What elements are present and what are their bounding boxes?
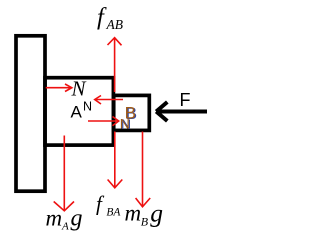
svg-text:B: B: [141, 214, 149, 228]
svg-text:BA: BA: [106, 206, 121, 218]
friction arrow f_AB (red, up from top of block A): [108, 38, 122, 92]
weight arrow m_B g (red, down from block B): [136, 132, 151, 207]
force F arrow (black, pointing left at block B): [156, 102, 207, 121]
wall (tall rectangle at left): [16, 36, 45, 191]
svg-text:B: B: [125, 104, 136, 123]
friction arrow f_BA (red, down from bottom of B through A): [108, 132, 123, 188]
normal force arrow N (red, from wall onto A, pointing right): [46, 84, 72, 92]
svg-text:m: m: [125, 201, 142, 226]
svg-text:g: g: [71, 206, 83, 232]
svg-text:m: m: [46, 206, 63, 231]
svg-text:N: N: [83, 99, 92, 113]
svg-text:F: F: [180, 90, 191, 110]
weight arrow m_A g (red, down from block A): [54, 136, 74, 211]
svg-text:A: A: [71, 103, 83, 122]
arrow N^A (red, pointing left onto A from B): [95, 96, 123, 105]
svg-text:N: N: [71, 77, 87, 101]
svg-text:A: A: [61, 221, 69, 233]
svg-text:AB: AB: [106, 17, 124, 32]
arrow N_B (red, pointing right onto B from A): [88, 117, 119, 126]
block B: [114, 95, 150, 130]
svg-text:g: g: [150, 199, 163, 228]
block A: [45, 78, 113, 145]
